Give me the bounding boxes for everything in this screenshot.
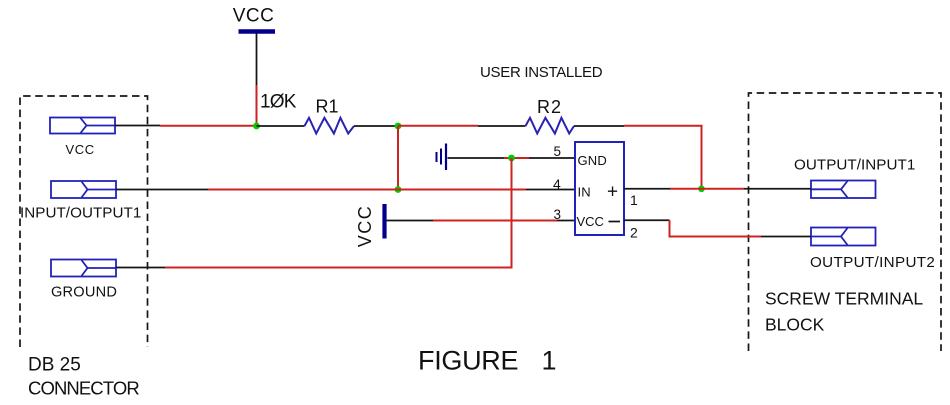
svg-text:3: 3 — [554, 207, 562, 222]
wire DB25-GROUND black — [116, 267, 165, 269]
op-amp U1 block — [575, 142, 624, 235]
svg-text:4: 4 — [553, 176, 561, 192]
wire pin5 stub black — [529, 157, 575, 159]
junction node VCC/10K — [253, 123, 260, 130]
wire pin1 to terminal black — [744, 188, 811, 190]
svg-text:1: 1 — [630, 192, 638, 208]
pin label minus — [609, 221, 621, 223]
wire ground junction red — [504, 157, 529, 159]
svg-text:+: + — [607, 182, 618, 203]
resistor R1 — [305, 118, 355, 134]
wire pin1 red — [670, 188, 744, 190]
wire R1 to node A — [354, 125, 398, 127]
resistor R2 — [526, 118, 575, 134]
wire GND net drop red — [165, 158, 512, 268]
wire ground to junction black — [448, 157, 505, 159]
connector pin VCC (DB25) — [50, 118, 115, 134]
svg-text:2: 2 — [630, 225, 638, 241]
svg-text:DB 25: DB 25 — [28, 355, 81, 376]
wire pin2 step red — [670, 220, 762, 236]
connector pin OUTPUT/INPUT2 (screw terminal) — [811, 228, 876, 246]
wire INPUT/OUTPUT1 red — [208, 189, 526, 191]
svg-text:OUTPUT/INPUT1: OUTPUT/INPUT1 — [794, 157, 915, 174]
svg-text:USER INSTALLED: USER INSTALLED — [480, 64, 603, 81]
svg-text:1ØK: 1ØK — [260, 92, 297, 113]
svg-text:VCC: VCC — [355, 205, 375, 248]
wire R2 to corner red — [624, 126, 702, 189]
wire junction to R1 — [257, 125, 305, 127]
junction node IN — [395, 186, 402, 193]
wire VCC to pin3 red — [433, 220, 557, 222]
ground — [437, 144, 447, 171]
connector pin GROUND (DB25) — [51, 260, 116, 277]
wire VCC drop black — [256, 34, 258, 86]
svg-text:VCC: VCC — [66, 142, 95, 157]
junction node GND — [508, 155, 515, 162]
wire R2 right black — [574, 125, 624, 127]
svg-text:R2: R2 — [537, 97, 562, 117]
svg-text:IN: IN — [578, 185, 591, 200]
DB25 connector dashed box — [20, 96, 148, 347]
svg-text:INPUT/OUTPUT1: INPUT/OUTPUT1 — [20, 205, 141, 222]
svg-text:OUTPUT/INPUT2: OUTPUT/INPUT2 — [810, 254, 935, 271]
power VCC (capacitor-style bar) — [382, 204, 386, 239]
svg-text:R1: R1 — [316, 97, 339, 117]
svg-text:GROUND: GROUND — [51, 285, 117, 301]
wire pin2 to terminal black — [761, 236, 811, 238]
wire node A to R2 red — [398, 125, 478, 127]
svg-text:VCC: VCC — [233, 6, 275, 27]
svg-text:SCREW TERMINAL: SCREW TERMINAL — [765, 289, 923, 309]
wire INPUT/OUTPUT1 black — [116, 189, 208, 191]
wire VCC drop red — [256, 85, 258, 126]
junction node A — [395, 123, 402, 130]
wire pin2 black — [624, 219, 670, 221]
connector pin OUTPUT/INPUT1 (screw terminal) — [811, 181, 876, 199]
svg-text:1: 1 — [542, 346, 557, 376]
wire to R2 black — [478, 125, 526, 127]
wire pin3 stub black — [557, 220, 575, 222]
svg-text:VCC: VCC — [577, 214, 604, 229]
connector pin INPUT/OUTPUT1 (DB25) — [51, 181, 116, 198]
wire node A drop red — [397, 126, 399, 190]
wire pin4 stub black — [526, 189, 575, 191]
wire VCC bar black — [387, 220, 434, 222]
svg-text:GND: GND — [578, 153, 608, 168]
wire DB25-VCC to junction red — [160, 125, 257, 127]
wire pin1 black — [624, 188, 670, 190]
power VCC (top bar) — [239, 29, 276, 33]
svg-text:5: 5 — [554, 144, 562, 159]
wire DB25-VCC to junction black — [115, 125, 160, 127]
junction node B — [698, 186, 705, 193]
svg-text:CONNECTOR: CONNECTOR — [28, 378, 139, 399]
svg-text:FIGURE: FIGURE — [418, 346, 518, 376]
svg-text:BLOCK: BLOCK — [765, 315, 825, 335]
screw terminal dashed box — [749, 93, 942, 351]
